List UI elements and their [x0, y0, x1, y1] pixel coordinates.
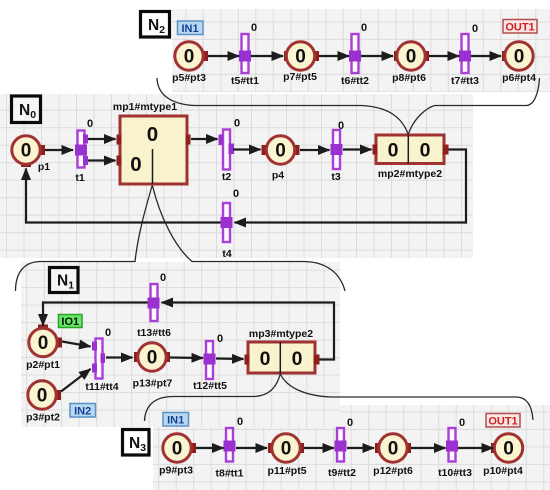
- svg-text:0: 0: [459, 417, 465, 429]
- svg-text:p13#pt7: p13#pt7: [133, 378, 173, 390]
- svg-text:p11#pt5: p11#pt5: [267, 465, 306, 477]
- place p11#pt5: [267, 434, 306, 477]
- wire p1 to t1: [45, 149, 73, 151]
- transition t10#tt3: [438, 417, 472, 479]
- svg-text:p7#pt5: p7#pt5: [283, 71, 317, 83]
- wire p12 to t10: [411, 447, 446, 449]
- svg-text:t4: t4: [222, 248, 231, 260]
- grid panel N3 (bottom): [153, 405, 550, 490]
- svg-text:0: 0: [420, 140, 431, 162]
- svg-text:0: 0: [237, 416, 243, 428]
- svg-text:0: 0: [388, 439, 399, 460]
- svg-text:0: 0: [338, 120, 344, 132]
- svg-text:0: 0: [147, 123, 158, 146]
- svg-text:0: 0: [347, 417, 353, 429]
- svg-text:p9#pt3: p9#pt3: [159, 465, 193, 477]
- wire p9 to t8: [196, 447, 224, 449]
- svg-text:0: 0: [105, 327, 111, 339]
- transition t13#tt6: [137, 272, 171, 339]
- svg-text:p4: p4: [272, 170, 284, 182]
- port label IO1 (N1): [59, 315, 83, 329]
- svg-text:0: 0: [514, 47, 525, 68]
- transition t6#tt2: [341, 22, 369, 87]
- wire t3 to mp2: [343, 148, 372, 150]
- place p6#pt4: [502, 42, 536, 84]
- module mp3#mtype2: [245, 328, 320, 373]
- svg-text:t11#tt4: t11#tt4: [85, 381, 118, 393]
- place p1: [12, 136, 50, 173]
- wire t11 to p13: [106, 356, 133, 358]
- transition t12#tt5: [193, 333, 227, 392]
- svg-text:IN1: IN1: [181, 23, 198, 35]
- svg-text:p2#pt1: p2#pt1: [26, 359, 60, 371]
- wire t9 to p12: [347, 447, 374, 449]
- wire t1 to mp1 upper: [88, 138, 116, 140]
- port label IN1 (N2): [178, 21, 204, 35]
- port label IN1 (N3): [163, 413, 189, 427]
- wire t8 to p11: [236, 447, 267, 449]
- place p9#pt3: [159, 434, 196, 477]
- transition t8#tt1: [215, 416, 243, 480]
- svg-text:0: 0: [21, 141, 32, 162]
- wire t12 to mp3: [216, 357, 244, 360]
- wire t4 to p1: [26, 169, 221, 223]
- wire p7 to t6: [319, 55, 349, 57]
- wire mp3 to t13 (feedback): [162, 303, 335, 360]
- svg-text:t2: t2: [222, 171, 231, 183]
- wire p5 to t5: [208, 55, 239, 57]
- place p12#pt6: [373, 434, 413, 477]
- wire t10 to p10: [458, 447, 493, 449]
- svg-text:0: 0: [361, 22, 367, 34]
- svg-text:0: 0: [292, 348, 303, 370]
- place p8#pt6: [392, 42, 429, 84]
- svg-text:t8#tt1: t8#tt1: [215, 468, 243, 480]
- svg-text:t3: t3: [331, 171, 340, 183]
- svg-text:0: 0: [275, 141, 286, 162]
- svg-text:0: 0: [172, 439, 183, 460]
- grid panel N0 (middle): [0, 94, 473, 258]
- transition t3: [331, 120, 345, 183]
- label box N0: [12, 96, 41, 123]
- svg-text:OUT1: OUT1: [488, 415, 517, 427]
- place p10#pt4: [483, 434, 523, 477]
- place p4: [262, 136, 300, 182]
- svg-text:0: 0: [38, 333, 49, 354]
- svg-text:t13#tt6: t13#tt6: [137, 327, 171, 339]
- grid panel N1 (lower-left): [21, 262, 340, 427]
- callout bubble N3: [145, 374, 534, 421]
- wire t5 to p7: [251, 55, 283, 57]
- svg-text:mp2#mtype2: mp2#mtype2: [378, 168, 442, 180]
- callout tail mp3: [279, 342, 281, 374]
- wire p8 to t7: [429, 55, 459, 57]
- port label IN2 (N1): [70, 404, 96, 418]
- wire p2 to t11: [62, 342, 91, 347]
- svg-text:OUT1: OUT1: [505, 21, 534, 33]
- label box N1: [50, 268, 79, 293]
- svg-text:0: 0: [160, 272, 166, 284]
- label box N3: [123, 430, 150, 456]
- wire t13 to p2: [43, 303, 148, 326]
- transition t9#tt2: [328, 417, 356, 479]
- svg-text:IN2: IN2: [74, 405, 91, 417]
- svg-text:0: 0: [406, 47, 417, 68]
- svg-text:t5#tt1: t5#tt1: [231, 75, 259, 87]
- wire p3 to t11: [61, 369, 91, 392]
- svg-text:p12#pt6: p12#pt6: [373, 465, 413, 477]
- callout tail mp2: [407, 135, 409, 164]
- svg-text:p6#pt4: p6#pt4: [502, 72, 536, 84]
- svg-text:0: 0: [233, 188, 239, 200]
- svg-text:0: 0: [184, 47, 195, 68]
- port label OUT1 (N2): [503, 20, 537, 34]
- svg-text:p3#pt2: p3#pt2: [26, 412, 60, 424]
- svg-text:0: 0: [217, 333, 223, 345]
- place p3#pt2: [26, 381, 61, 424]
- label box N2: [141, 12, 170, 38]
- wire t6 to p8: [361, 55, 393, 57]
- wire t1 to mp1 lower: [88, 159, 116, 161]
- svg-text:p1: p1: [38, 161, 50, 173]
- transition t5#tt1: [231, 22, 259, 87]
- module mp1#mtype1: [113, 101, 191, 184]
- wire t2 to p4: [233, 148, 261, 150]
- transition t1: [75, 118, 93, 184]
- wire p13 to t12: [170, 356, 203, 359]
- svg-text:t10#tt3: t10#tt3: [438, 467, 472, 479]
- callout bubble N1: [16, 185, 346, 291]
- svg-text:0: 0: [295, 47, 306, 68]
- svg-text:t12#tt5: t12#tt5: [193, 380, 227, 392]
- wire p4 to t3: [300, 149, 330, 151]
- svg-text:t9#tt2: t9#tt2: [328, 467, 356, 479]
- svg-text:0: 0: [234, 118, 240, 130]
- svg-text:p5#pt3: p5#pt3: [172, 72, 206, 84]
- svg-text:p10#pt4: p10#pt4: [483, 465, 523, 477]
- svg-text:t7#tt3: t7#tt3: [451, 75, 479, 87]
- callout tail mp1: [152, 149, 154, 184]
- svg-text:0: 0: [472, 23, 478, 35]
- svg-text:mp3#mtype2: mp3#mtype2: [249, 328, 313, 340]
- port label OUT1 (N3): [486, 414, 520, 428]
- transition t2: [219, 118, 241, 184]
- svg-text:0: 0: [260, 348, 271, 370]
- svg-text:IN1: IN1: [167, 414, 184, 426]
- transition t7#tt3: [451, 23, 479, 87]
- svg-text:0: 0: [251, 22, 257, 34]
- svg-text:p8#pt6: p8#pt6: [392, 72, 426, 84]
- grid panel N2 (top): [172, 9, 550, 92]
- svg-text:0: 0: [388, 140, 399, 162]
- svg-text:0: 0: [37, 386, 48, 407]
- wire p11 to t9: [304, 447, 334, 449]
- place p13#pt7: [133, 343, 173, 390]
- svg-text:mp1#mtype1: mp1#mtype1: [113, 101, 177, 113]
- transition t4: [221, 188, 240, 260]
- svg-text:0: 0: [281, 439, 292, 460]
- wire mp1 to t2: [191, 138, 218, 140]
- svg-text:t1: t1: [75, 172, 84, 184]
- svg-text:0: 0: [503, 439, 514, 460]
- svg-text:0: 0: [130, 153, 141, 176]
- place p5#pt3: [172, 42, 208, 84]
- wire mp2 to t4 (feedback): [235, 150, 467, 223]
- svg-text:0: 0: [147, 348, 158, 369]
- callout bubble N2: [157, 78, 540, 135]
- svg-text:t6#tt2: t6#tt2: [341, 75, 369, 87]
- transition t11#tt4: [85, 327, 118, 393]
- module mp2#mtype2: [373, 135, 449, 180]
- svg-text:0: 0: [87, 118, 93, 130]
- wire t7 to p6: [471, 55, 501, 57]
- place p7#pt5: [283, 42, 319, 83]
- svg-text:IO1: IO1: [61, 316, 79, 328]
- place p2#pt1: [26, 325, 62, 372]
